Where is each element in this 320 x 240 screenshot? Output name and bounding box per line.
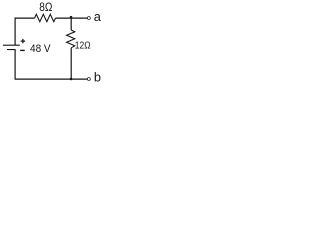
svg-text:12Ω: 12Ω bbox=[75, 41, 91, 52]
svg-text:a: a bbox=[94, 9, 102, 24]
svg-text:b: b bbox=[94, 70, 101, 85]
svg-text:48 V: 48 V bbox=[30, 43, 51, 55]
svg-text:8Ω: 8Ω bbox=[39, 1, 52, 14]
